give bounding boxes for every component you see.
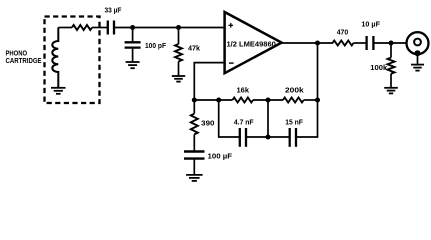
wire C4 to connector xyxy=(374,42,407,44)
svg-text:16k: 16k xyxy=(237,85,250,94)
ground (inside cartridge box) xyxy=(51,87,66,89)
svg-text:33 µF: 33 µF xyxy=(105,5,122,14)
node (lower rail middle) xyxy=(266,135,271,140)
op-amp U1 1/2 LME49860 xyxy=(225,12,282,73)
resistor 470 xyxy=(333,41,354,46)
feedback top rail wire xyxy=(194,99,232,101)
ground (100pF) xyxy=(126,61,140,63)
ground (100uF) xyxy=(186,174,203,176)
lower rail right wire + rise xyxy=(297,100,318,137)
svg-text:CARTRIDGE: CARTRIDGE xyxy=(6,56,42,65)
wire op-amp minus input xyxy=(194,63,224,100)
node (16k/200k junction) xyxy=(266,98,271,103)
node (minus/390 junction) xyxy=(192,98,197,103)
resistor 200k xyxy=(283,98,304,103)
svg-text:100k: 100k xyxy=(370,63,388,72)
capacitor 4.7nF xyxy=(239,128,241,147)
lower rail left drop + wire xyxy=(219,100,240,137)
lower rail middle wire xyxy=(247,136,290,138)
resistor 47k branch xyxy=(178,28,180,45)
node (lower rail left drop) xyxy=(216,98,221,103)
resistor 390 branch xyxy=(193,100,195,114)
svg-text:1/2 LME49860: 1/2 LME49860 xyxy=(227,39,276,48)
node (47k junction) xyxy=(176,25,181,30)
svg-text:100 pF: 100 pF xyxy=(145,41,166,50)
resistor (cartridge, series) xyxy=(72,25,92,30)
resistor 100k branch xyxy=(390,43,392,58)
wire C1 to op-amp + input xyxy=(115,27,225,29)
wire 390 to C5 xyxy=(193,134,195,151)
svg-text:100 µF: 100 µF xyxy=(208,151,233,160)
wire 470 to C4 xyxy=(354,42,367,44)
wire feedback vertical xyxy=(317,43,319,100)
op-amp - symbol xyxy=(229,62,234,64)
ground (100k) xyxy=(384,87,398,89)
svg-text:390: 390 xyxy=(201,118,214,127)
svg-text:15 nF: 15 nF xyxy=(285,117,303,126)
resistor 16k xyxy=(233,98,254,103)
capacitor 100uF xyxy=(184,150,205,152)
node (output/feedback junction) xyxy=(315,41,320,46)
capacitor 15nF xyxy=(289,128,291,147)
wire connector to ground xyxy=(417,53,419,64)
capacitor 10uF xyxy=(365,36,367,50)
wire op-amp output xyxy=(282,42,333,44)
svg-text:10 µF: 10 µF xyxy=(361,20,380,29)
svg-text:47k: 47k xyxy=(188,43,201,52)
svg-text:200k: 200k xyxy=(285,85,305,94)
node (feedback right junction) xyxy=(315,98,320,103)
wire resistor to C1 xyxy=(92,27,107,29)
capacitor 33uF xyxy=(107,21,109,35)
node (100k junction) xyxy=(389,41,394,46)
node (100pF junction) xyxy=(130,25,135,30)
wire coil top to resistor xyxy=(58,27,72,29)
inductor (cartridge coil) xyxy=(52,28,58,88)
output connector (RCA jack) xyxy=(407,32,429,54)
ground (connector) xyxy=(411,64,424,66)
phono cartridge dashed box xyxy=(45,17,100,104)
svg-text:4.7 nF: 4.7 nF xyxy=(234,117,254,126)
wire 16k/200k node down xyxy=(267,100,269,137)
wire C5 to ground xyxy=(193,159,195,175)
ground (47k) xyxy=(172,75,185,77)
svg-text:470: 470 xyxy=(337,28,349,37)
op-amp + symbol xyxy=(229,24,234,26)
capacitor 100pF branch xyxy=(132,28,134,43)
